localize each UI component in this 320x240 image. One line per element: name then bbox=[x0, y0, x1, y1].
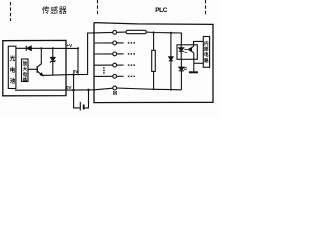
svg-text:池: 池 bbox=[10, 77, 16, 85]
svg-text:电: 电 bbox=[10, 66, 16, 74]
svg-text:路: 路 bbox=[23, 77, 28, 84]
svg-text:路: 路 bbox=[204, 57, 209, 64]
svg-text:0V: 0V bbox=[73, 69, 79, 74]
svg-text:PLC: PLC bbox=[155, 7, 168, 14]
svg-text:0V: 0V bbox=[66, 85, 72, 90]
svg-text:+V: +V bbox=[67, 43, 73, 48]
svg-text:M: M bbox=[113, 91, 117, 97]
svg-text:光: 光 bbox=[9, 55, 16, 63]
svg-text:传感器: 传感器 bbox=[42, 5, 67, 15]
